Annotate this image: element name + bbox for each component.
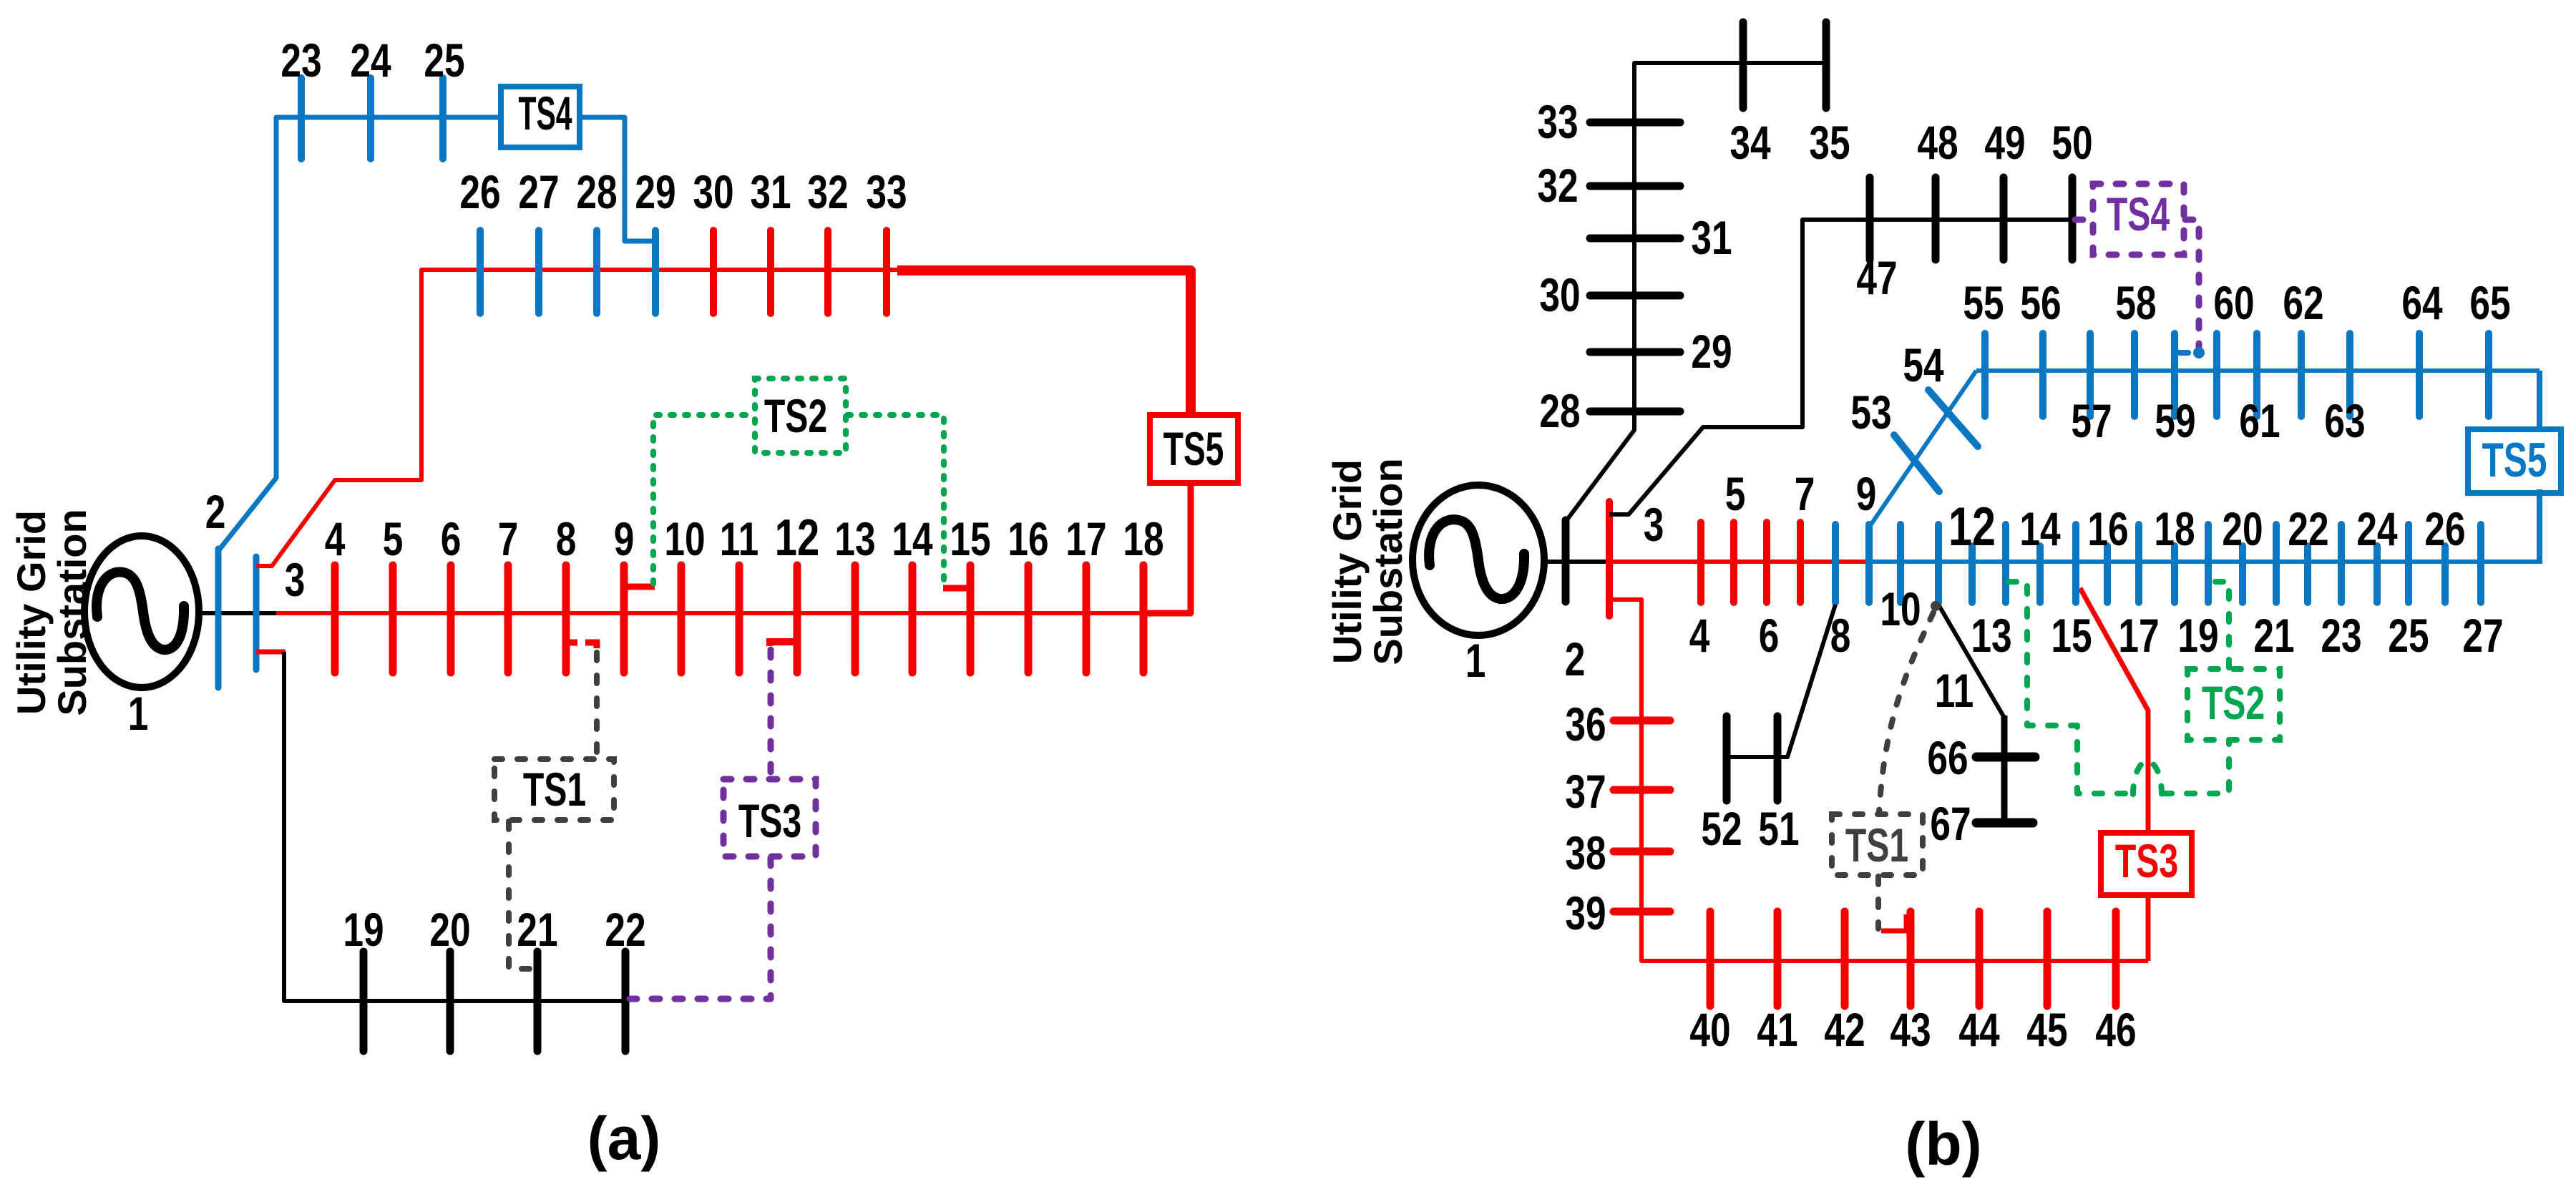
svg-text:51: 51 xyxy=(1758,802,1799,856)
wire: bus9 diagonal to feeder 55-65 (b) xyxy=(1869,371,1976,527)
bus 55 (b) xyxy=(1981,333,1989,416)
bus 32 (b) xyxy=(1590,182,1680,190)
bus 6 (b) xyxy=(1763,522,1770,602)
bus 10 (a) xyxy=(678,565,686,673)
wire: bus13 stub to TS2 (b) xyxy=(2009,582,2131,793)
svg-text:7: 7 xyxy=(498,512,519,566)
bus 23 (b) xyxy=(2338,524,2345,602)
bus 7 (a) xyxy=(504,565,512,673)
tie switch TS5 (a) xyxy=(1150,415,1238,483)
bus 21 (a) xyxy=(534,952,542,1051)
wire: TS1 hook to bus43 (b) xyxy=(1881,914,1906,931)
svg-text:4: 4 xyxy=(1689,609,1710,663)
bus 19 (a) xyxy=(360,952,368,1051)
svg-text:20: 20 xyxy=(2222,502,2263,556)
wire: bus50 stub to TS4 (b) xyxy=(2075,217,2092,223)
svg-text:TS3: TS3 xyxy=(738,796,801,848)
svg-text:19: 19 xyxy=(2177,609,2218,663)
wire: TS1 lower leg (a) xyxy=(509,821,532,969)
substation text (b) xyxy=(1324,459,1370,664)
svg-text:17: 17 xyxy=(1065,512,1106,566)
svg-text:15: 15 xyxy=(2051,609,2092,663)
bus 65 (b) xyxy=(2485,333,2492,416)
bus 58 (b) xyxy=(2131,333,2138,416)
wire: TS3 upper leg (a) xyxy=(768,650,774,778)
bus 66 (b) xyxy=(1976,753,2035,762)
bus 12 (a) xyxy=(794,565,801,673)
bus 21 (b) xyxy=(2273,524,2280,602)
bus 2 (b) xyxy=(1562,520,1570,602)
svg-text:63: 63 xyxy=(2324,394,2365,448)
bus 25 (a) xyxy=(439,78,447,159)
svg-text:32: 32 xyxy=(1537,159,1578,213)
bus 5 (a) xyxy=(389,565,397,673)
svg-text:11: 11 xyxy=(720,512,758,566)
bus 25 (b) xyxy=(2405,524,2412,602)
bus 33 (b) xyxy=(1590,119,1680,127)
svg-text:TS1: TS1 xyxy=(523,764,586,816)
wire: TS1 upper leg (a) xyxy=(594,653,600,758)
wire: TS4 to bus29 (a) xyxy=(578,117,654,241)
wire: TS2 top leg (b) xyxy=(2211,582,2229,668)
svg-text:22: 22 xyxy=(605,903,645,957)
bus 16 (b) xyxy=(2104,546,2111,602)
svg-text:50: 50 xyxy=(2051,116,2092,170)
svg-text:TS5: TS5 xyxy=(2482,432,2547,487)
svg-text:31: 31 xyxy=(750,165,791,219)
svg-text:TS4: TS4 xyxy=(2107,189,2170,241)
bus 36 (b) xyxy=(1614,717,1670,725)
svg-text:(a): (a) xyxy=(587,1105,661,1172)
wire: feeder to TS5 (b) xyxy=(2537,371,2542,434)
svg-text:12: 12 xyxy=(1948,497,1996,557)
svg-text:28: 28 xyxy=(576,165,617,219)
svg-text:29: 29 xyxy=(1691,325,1732,378)
bus 33 (a) xyxy=(883,230,890,313)
bus 11 (b) xyxy=(1935,524,1942,602)
wire: bus8 stub to TS1 (a) xyxy=(566,640,577,646)
tie switch TS3 (a) xyxy=(723,779,816,856)
wire: bus10 to TS1 curve (b) xyxy=(1931,601,1941,611)
svg-text:33: 33 xyxy=(866,165,907,219)
bus 11 (a) xyxy=(736,565,743,673)
svg-text:13: 13 xyxy=(1971,609,2011,663)
bus 26 (b) xyxy=(2441,546,2449,602)
tie switch TS1 (a) xyxy=(494,759,614,820)
svg-text:16: 16 xyxy=(1008,512,1048,566)
svg-text:6: 6 xyxy=(441,512,462,566)
svg-text:42: 42 xyxy=(1824,1003,1865,1057)
svg-text:65: 65 xyxy=(2469,276,2510,330)
bus 50 (b) xyxy=(2069,177,2077,260)
svg-text:TS3: TS3 xyxy=(2115,836,2178,888)
bus 22 (b) xyxy=(2304,546,2311,602)
bus 27 (b) xyxy=(2477,524,2484,602)
bus 20 (b) xyxy=(2239,546,2246,602)
svg-text:28: 28 xyxy=(1539,384,1580,438)
tie switch TS1 (b) xyxy=(1832,814,1923,875)
wire: TS2 right leg (a) xyxy=(847,415,944,585)
bus 13 (a) xyxy=(852,565,859,673)
bus 8 (b) xyxy=(1832,524,1839,602)
svg-text:7: 7 xyxy=(1795,467,1815,521)
wire: bus46 corner to TS3 (b) xyxy=(2146,897,2151,961)
bus 6 (a) xyxy=(447,565,455,673)
svg-text:59: 59 xyxy=(2155,394,2195,448)
bus 18 (b) xyxy=(2171,546,2178,602)
wire: main feeder red part (b) xyxy=(1608,560,1869,564)
svg-text:34: 34 xyxy=(1729,116,1770,170)
bus 51 (b) xyxy=(1774,716,1782,801)
svg-text:25: 25 xyxy=(2388,609,2429,663)
bus 24 (b) xyxy=(2373,546,2381,602)
bus 7 (b) xyxy=(1797,522,1804,602)
svg-text:32: 32 xyxy=(807,165,848,219)
bus 20 (a) xyxy=(447,952,454,1051)
tie switch TS4 (a) xyxy=(501,87,580,147)
bus 22 (a) xyxy=(622,952,630,1051)
substation text (a) xyxy=(9,510,54,715)
wire: TS2 left leg (a) xyxy=(653,415,753,584)
bus 28 (a) xyxy=(593,230,600,313)
wire: TS5 to bus 18 (a) xyxy=(1141,480,1191,613)
wire: TS4 right leg (b) xyxy=(2185,220,2199,348)
svg-text:8: 8 xyxy=(556,512,577,566)
svg-text:3: 3 xyxy=(1644,498,1664,552)
bus 32 (a) xyxy=(824,230,831,313)
svg-text:33: 33 xyxy=(1537,95,1578,149)
bus 41 (b) xyxy=(1774,912,1782,1006)
wire: TS5 to main feeder (b) xyxy=(2537,489,2542,564)
wire: bus2 to TS4 branch (a) xyxy=(218,117,502,551)
bus 31 (b) xyxy=(1590,235,1680,243)
svg-text:TS1: TS1 xyxy=(1845,820,1908,872)
svg-text:48: 48 xyxy=(1917,116,1958,170)
bus 15 (a) xyxy=(967,565,975,673)
svg-text:44: 44 xyxy=(1958,1003,1999,1057)
bus 12 (b) xyxy=(1968,546,1976,602)
svg-text:37: 37 xyxy=(1565,765,1606,819)
bus 48 (b) xyxy=(1932,177,1940,260)
bus 15 (b) xyxy=(2072,524,2079,602)
wire: bus3 to black branch (a) xyxy=(256,650,286,655)
svg-text:2: 2 xyxy=(1565,632,1586,686)
bus 47 (b) xyxy=(1866,177,1874,260)
svg-text:20: 20 xyxy=(429,903,470,957)
bus 4 (b) xyxy=(1697,522,1704,602)
svg-text:10: 10 xyxy=(1880,582,1921,636)
tie switch TS2 (b) xyxy=(2187,669,2280,740)
bus 44 (b) xyxy=(1976,912,1984,1006)
svg-text:60: 60 xyxy=(2213,276,2254,330)
bus 42 (b) xyxy=(1841,912,1849,1006)
bus 17 (b) xyxy=(2135,524,2142,602)
bus 30 (b) xyxy=(1590,292,1680,300)
svg-text:31: 31 xyxy=(1691,211,1732,265)
svg-text:24: 24 xyxy=(350,34,391,87)
svg-text:9: 9 xyxy=(614,512,635,566)
svg-text:55: 55 xyxy=(1963,276,2004,330)
svg-text:56: 56 xyxy=(2020,276,2061,330)
wire: TS1 lower leg (b) xyxy=(1875,876,1881,929)
bus 18 (a) xyxy=(1140,565,1148,673)
svg-text:3: 3 xyxy=(285,553,306,607)
svg-text:41: 41 xyxy=(1757,1003,1797,1057)
bus 67 (b) xyxy=(1976,819,2033,828)
svg-text:66: 66 xyxy=(1927,731,1968,785)
bus 54 (b) xyxy=(1928,390,1978,446)
wire: bus3 down to branch 36-39 (b) xyxy=(1611,600,2148,961)
svg-text:23: 23 xyxy=(280,34,321,87)
wire: source to bus 3 (a) xyxy=(197,611,278,615)
svg-text:Substation: Substation xyxy=(1365,458,1410,665)
bus 9 (b) xyxy=(1865,524,1873,602)
bus 62 (b) xyxy=(2298,333,2305,416)
wire: TS3 lower leg (a) xyxy=(630,858,771,999)
bus 5 (b) xyxy=(1730,522,1737,602)
svg-text:19: 19 xyxy=(343,903,384,957)
svg-text:12: 12 xyxy=(775,509,819,566)
wire: TS3 to bus15 (b) xyxy=(2080,588,2148,834)
wire: source to bus3 (b) xyxy=(1541,560,1610,564)
svg-text:40: 40 xyxy=(1689,1003,1730,1057)
svg-text:14: 14 xyxy=(892,512,932,566)
svg-text:Utility Grid: Utility Grid xyxy=(1324,459,1370,664)
bus 45 (b) xyxy=(2044,912,2051,1006)
svg-text:47: 47 xyxy=(1856,251,1897,305)
node 1 label (b) xyxy=(1465,634,1486,688)
svg-text:4: 4 xyxy=(325,512,346,566)
wire: bus11 to 66-67 (b) xyxy=(1938,605,2004,718)
svg-text:26: 26 xyxy=(459,165,500,219)
svg-text:15: 15 xyxy=(950,512,990,566)
svg-text:58: 58 xyxy=(2115,276,2156,330)
bus 57 (b) xyxy=(2087,333,2094,416)
svg-text:38: 38 xyxy=(1565,826,1606,880)
bus 40 (b) xyxy=(1707,912,1714,1006)
svg-text:18: 18 xyxy=(2154,502,2195,556)
svg-text:2: 2 xyxy=(205,485,226,539)
wire: TS2 to bus15 stub (a) xyxy=(943,585,974,592)
wire: bus3 to feeder 47-50 (b) xyxy=(1609,220,2072,514)
bus 39 (b) xyxy=(1614,908,1670,916)
utility source U1 (b) xyxy=(1413,485,1544,635)
bus 9 (a) xyxy=(620,565,628,673)
tie switch TS5 (b) xyxy=(2468,429,2561,493)
bus 64 (b) xyxy=(2416,333,2423,416)
wire: branch thick to TS5 (a) xyxy=(897,270,1191,418)
svg-text:6: 6 xyxy=(1759,609,1780,663)
svg-text:1: 1 xyxy=(128,687,149,741)
svg-text:17: 17 xyxy=(2118,609,2159,663)
bus 60 (b) xyxy=(2213,333,2220,416)
tie switch TS4 (b) xyxy=(2093,184,2184,255)
bus 13 (b) xyxy=(2002,524,2009,602)
svg-text:43: 43 xyxy=(1890,1003,1931,1057)
bus 61 (b) xyxy=(2253,333,2260,416)
wire: TS2 hop over red line (b) xyxy=(2133,761,2162,794)
bus 17 (a) xyxy=(1083,565,1091,673)
wire: main feeder (a) xyxy=(276,611,1191,615)
svg-text:52: 52 xyxy=(1701,802,1742,856)
bus 3 (b) xyxy=(1606,502,1613,616)
wire: main feeder blue part (b) xyxy=(1868,560,2540,564)
svg-text:21: 21 xyxy=(2253,609,2294,663)
bus 38 (b) xyxy=(1614,848,1670,856)
bus 37 (b) xyxy=(1614,786,1670,794)
svg-text:13: 13 xyxy=(834,512,875,566)
svg-text:9: 9 xyxy=(1856,467,1877,521)
svg-text:1: 1 xyxy=(1465,634,1486,688)
bus 53 (b) xyxy=(1894,435,1939,492)
svg-text:45: 45 xyxy=(2026,1003,2067,1057)
svg-text:TS2: TS2 xyxy=(764,391,827,443)
svg-text:25: 25 xyxy=(424,34,464,87)
svg-text:18: 18 xyxy=(1123,512,1163,566)
wire: bus12 stub to TS3 (a) xyxy=(770,642,799,646)
svg-text:14: 14 xyxy=(2019,502,2060,556)
svg-text:64: 64 xyxy=(2401,276,2442,330)
svg-text:5: 5 xyxy=(383,512,404,566)
junction dot near bus 59 (b) xyxy=(2193,347,2205,358)
bus 26 (a) xyxy=(477,230,484,313)
wire: bus9 stub to TS2 (a) xyxy=(623,584,655,590)
bus 34 (b) xyxy=(1740,22,1747,108)
bus 14 (a) xyxy=(909,565,917,673)
bus 43 (b) xyxy=(1907,912,1915,1006)
bus 30 (a) xyxy=(710,230,717,313)
bus 46 (b) xyxy=(2112,912,2120,1006)
svg-text:36: 36 xyxy=(1565,698,1606,751)
wire: bus3 to branch 26-33 (a) xyxy=(256,270,900,566)
svg-text:TS4: TS4 xyxy=(518,87,572,140)
svg-text:10: 10 xyxy=(664,512,705,566)
svg-text:(b): (b) xyxy=(1905,1110,1981,1178)
svg-text:16: 16 xyxy=(2087,502,2128,556)
svg-text:30: 30 xyxy=(693,165,733,219)
svg-text:21: 21 xyxy=(517,903,557,957)
bus 28 (b) xyxy=(1590,408,1680,416)
svg-text:29: 29 xyxy=(635,165,675,219)
svg-text:22: 22 xyxy=(2288,502,2328,556)
svg-text:53: 53 xyxy=(1850,386,1891,439)
bus 2 (a) xyxy=(215,549,222,688)
bus 31 (a) xyxy=(767,230,774,313)
svg-text:61: 61 xyxy=(2239,394,2280,448)
wire: feeder 55-65 (b) xyxy=(1976,368,2540,373)
bus 4 (a) xyxy=(331,565,339,673)
wire: bus8 to 51 (b) xyxy=(1787,605,1835,757)
svg-text:30: 30 xyxy=(1539,268,1580,322)
svg-text:67: 67 xyxy=(1930,797,1971,851)
tie switch TS3 (b) xyxy=(2101,833,2192,895)
svg-text:11: 11 xyxy=(1935,664,1974,718)
bus 29 (a) xyxy=(652,230,659,313)
wire: 51-52 connector (b) xyxy=(1727,755,1787,759)
svg-text:39: 39 xyxy=(1565,886,1606,940)
bus 29 (b) xyxy=(1590,348,1680,356)
bus 14 (b) xyxy=(2036,546,2044,602)
bus 59 (b) xyxy=(2171,333,2178,416)
svg-text:46: 46 xyxy=(2095,1003,2136,1057)
svg-text:35: 35 xyxy=(1809,116,1850,170)
bus 24 (a) xyxy=(367,78,374,159)
bus 23 (a) xyxy=(298,78,305,159)
utility source U1 (a) xyxy=(84,536,199,688)
svg-text:62: 62 xyxy=(2283,276,2323,330)
bus 49 (b) xyxy=(2000,177,2008,260)
tie switch TS2 (a) xyxy=(755,378,846,453)
svg-text:23: 23 xyxy=(2321,609,2361,663)
svg-text:57: 57 xyxy=(2071,394,2112,448)
svg-text:TS5: TS5 xyxy=(1163,423,1224,476)
svg-text:TS2: TS2 xyxy=(2202,678,2265,730)
svg-text:Utility Grid: Utility Grid xyxy=(9,510,54,715)
svg-text:27: 27 xyxy=(2462,609,2503,663)
svg-text:49: 49 xyxy=(1984,116,2025,170)
bus 52 (b) xyxy=(1723,716,1731,801)
bus 3 (a) xyxy=(253,557,260,670)
wire: bus2 to feeder 28-33 (b) xyxy=(1566,63,1826,522)
bus 56 (b) xyxy=(2039,333,2046,416)
svg-text:26: 26 xyxy=(2424,502,2465,556)
bus 27 (a) xyxy=(535,230,542,313)
bus 63 (b) xyxy=(2346,333,2353,416)
bus 16 (a) xyxy=(1025,565,1033,673)
svg-text:54: 54 xyxy=(1903,338,1943,392)
wire: TS2 left leg tail (b) xyxy=(2164,741,2229,793)
svg-text:24: 24 xyxy=(2356,502,2397,556)
svg-text:27: 27 xyxy=(518,165,559,219)
bus 8 (a) xyxy=(562,565,570,673)
svg-text:5: 5 xyxy=(1725,467,1746,521)
bus 19 (b) xyxy=(2205,524,2212,602)
bus 35 (b) xyxy=(1823,22,1830,108)
node 1 label (a) xyxy=(128,687,149,741)
bus 10 (b) xyxy=(1897,524,1904,602)
